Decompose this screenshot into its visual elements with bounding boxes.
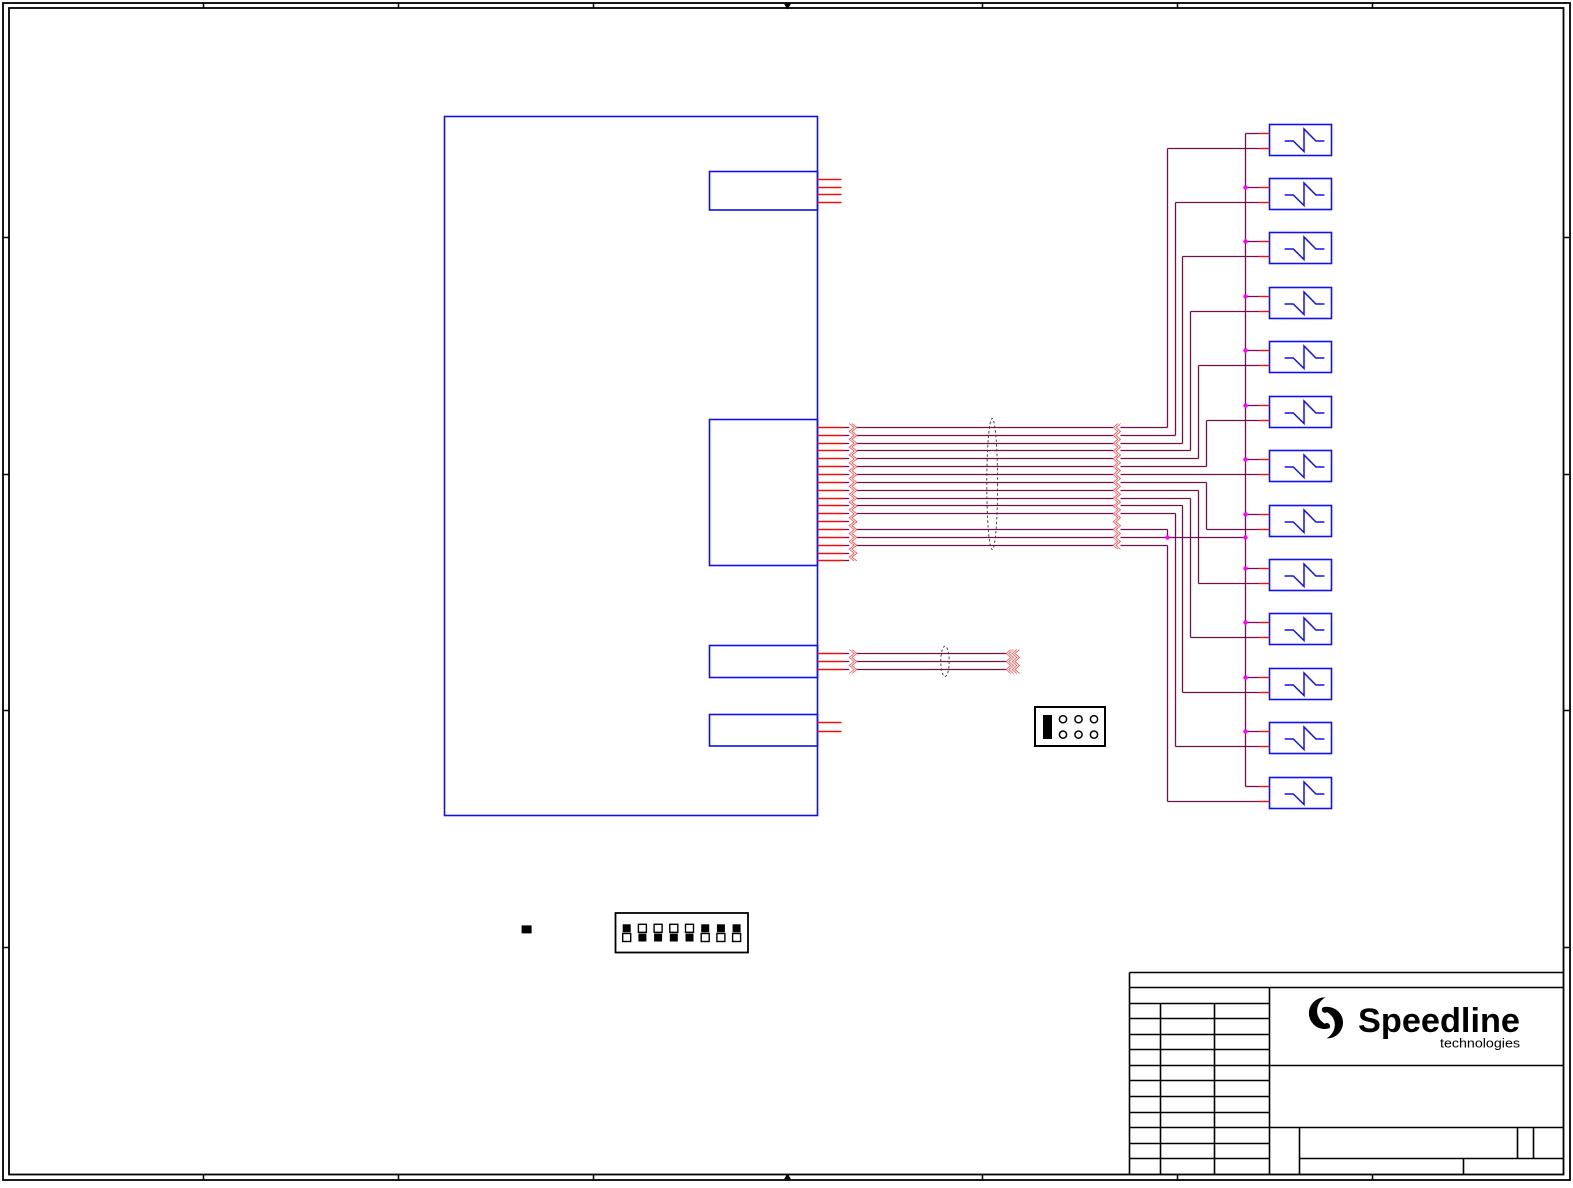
svg-text:Speedline: Speedline (1358, 1002, 1520, 1040)
svg-text:technologies: technologies (1440, 1035, 1520, 1050)
